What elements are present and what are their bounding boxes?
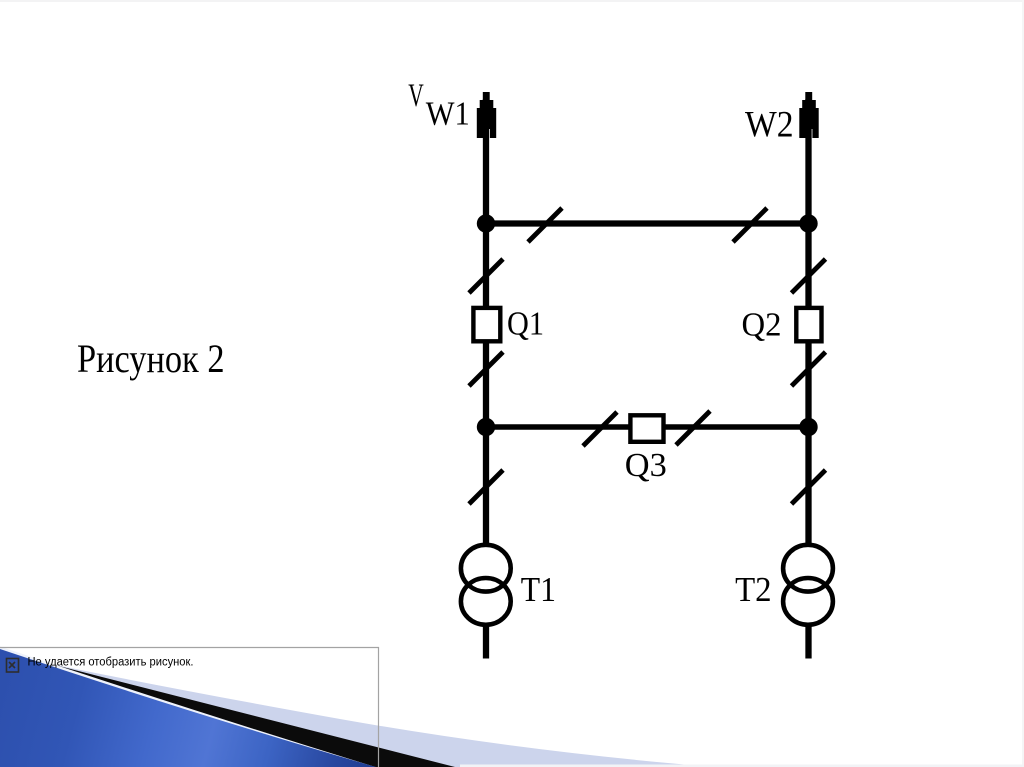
transformer T2 upper winding	[783, 545, 833, 592]
transformer T2 lower winding	[783, 578, 833, 625]
transformer T1 upper winding	[461, 545, 511, 592]
placeholder box fill	[3, 648, 379, 767]
feeder arrow W1	[477, 92, 496, 138]
disconnector slash bus right	[733, 208, 767, 242]
placeholder box border	[0, 648, 379, 767]
disconnector slash above T1	[469, 470, 503, 504]
disconnector slash above Q2	[792, 259, 826, 293]
svg-text:Q1: Q1	[507, 306, 544, 343]
transformer T1 lower winding	[461, 578, 511, 625]
template light separator wedge	[0, 647, 376, 767]
wire stub below T1	[483, 625, 489, 659]
node B (bus right junction)	[799, 214, 817, 232]
wire top bus W1-W2	[486, 220, 809, 226]
wire middle tie link	[486, 424, 809, 430]
broken picture icon	[7, 659, 19, 673]
slide edge bottom strip	[460, 765, 1024, 767]
breaker Q3	[630, 415, 663, 442]
svg-text:T2: T2	[735, 570, 772, 609]
breaker Q2	[796, 308, 821, 341]
wire W2 vertical feeder line	[805, 99, 811, 545]
svg-text:V: V	[408, 78, 424, 114]
wire stub below T2	[805, 625, 811, 659]
template black wedge	[0, 651, 455, 767]
node D (tie right junction)	[799, 418, 817, 436]
wire W1 vertical feeder line	[483, 99, 489, 545]
feeder arrow W2	[799, 92, 818, 138]
svg-text:Не удается отобразить рисунок.: Не удается отобразить рисунок.	[28, 657, 194, 669]
svg-text:W2: W2	[745, 105, 794, 146]
disconnector slash above Q1	[469, 259, 503, 293]
slide edge right	[1022, 0, 1024, 767]
disconnector slash below Q2	[792, 352, 826, 386]
disconnector slash left of Q3	[583, 412, 617, 446]
svg-text:Рисунок 2: Рисунок 2	[77, 336, 225, 381]
svg-text:Q2: Q2	[742, 307, 782, 344]
disconnector slash below Q1	[469, 352, 503, 386]
slide edge top	[0, 0, 1024, 2]
breaker Q1	[473, 308, 500, 341]
svg-text:W1: W1	[426, 96, 470, 133]
template lavender wedge	[0, 654, 713, 767]
node C (tie left junction)	[477, 418, 495, 436]
disconnector slash bus left	[528, 208, 562, 242]
svg-text:Q3: Q3	[625, 447, 667, 484]
svg-text:T1: T1	[521, 570, 556, 609]
disconnector slash right of Q3	[676, 411, 710, 445]
node A (bus left junction)	[477, 214, 495, 232]
disconnector slash above T2	[792, 470, 826, 504]
